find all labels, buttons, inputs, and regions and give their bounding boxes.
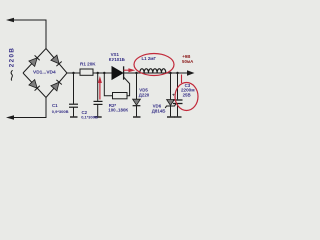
svg-text:VD1...VD4: VD1...VD4 bbox=[33, 69, 56, 75]
red annotation arrow at thyristor output bbox=[124, 68, 136, 72]
capacitor C3 electrolytic bbox=[172, 73, 195, 117]
bridge diamond wires VD1...VD4 bbox=[23, 49, 67, 98]
node VD5 junction bbox=[135, 72, 137, 74]
red annotation arrow at C2 bbox=[98, 76, 102, 100]
svg-text:Д220: Д220 bbox=[139, 92, 150, 97]
svg-text:25В: 25В bbox=[183, 92, 191, 97]
svg-text:100..180К: 100..180К bbox=[108, 108, 128, 113]
diode VD2 upper-right bbox=[51, 55, 62, 66]
svg-text:50мА: 50мА bbox=[182, 59, 194, 64]
AC tilde symbol bbox=[11, 70, 13, 80]
resistor R2 gate loop bbox=[104, 73, 129, 113]
svg-text:Д814Б: Д814Б bbox=[152, 108, 166, 113]
red annotation ellipse around L1 bbox=[134, 54, 174, 76]
thyristor VS1 bbox=[109, 52, 125, 80]
wire bottom AC input bbox=[13, 98, 46, 118]
resistor R1 bbox=[80, 62, 96, 76]
node R2 junction bbox=[103, 72, 105, 74]
capacitor C2 bbox=[81, 73, 102, 119]
red annotation circle around C3 value bbox=[175, 75, 198, 111]
svg-text:220В: 220В bbox=[9, 47, 16, 67]
wire main rail bbox=[67, 72, 188, 74]
diode VD3 lower-left bbox=[29, 80, 40, 91]
arrow top-left bbox=[6, 18, 14, 22]
diode VD4 lower-right bbox=[51, 80, 62, 91]
arrow bottom-left bbox=[6, 115, 14, 119]
diode VD5 bbox=[133, 73, 150, 117]
diode VD1 upper-left bbox=[29, 55, 40, 66]
wire top AC input bbox=[13, 20, 46, 49]
svg-text:КУ101Б: КУ101Б bbox=[109, 57, 125, 62]
svg-text:0,9*300В: 0,9*300В bbox=[52, 109, 69, 114]
svg-text:R1 20K: R1 20K bbox=[80, 62, 96, 67]
capacitor C1 bbox=[52, 73, 78, 117]
svg-text:0,1*300В: 0,1*300В bbox=[81, 114, 98, 119]
svg-text:C1: C1 bbox=[52, 103, 58, 108]
svg-text:L1 2мГ: L1 2мГ bbox=[142, 56, 157, 61]
inductor L1 bbox=[140, 56, 166, 72]
node C3 junction bbox=[176, 72, 178, 74]
zener diode VD6 bbox=[152, 73, 176, 117]
arrow output right bbox=[187, 70, 195, 75]
label +9V 50mA output bbox=[182, 54, 194, 64]
node C2 junction bbox=[97, 72, 99, 74]
node VD6 junction bbox=[169, 72, 171, 74]
node L1 output junction bbox=[165, 72, 167, 74]
node C1 junction bbox=[72, 72, 74, 74]
